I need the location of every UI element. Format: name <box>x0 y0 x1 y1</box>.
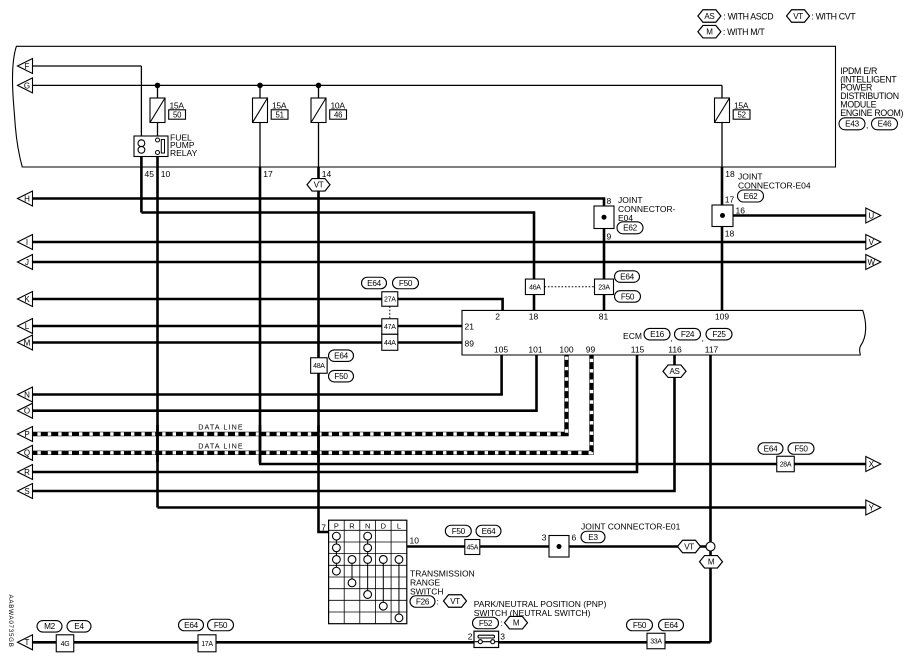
dotted link 46A-23A <box>545 286 595 288</box>
page connector arrow J <box>18 255 33 270</box>
svg-text:VT: VT <box>684 542 694 551</box>
svg-text:17: 17 <box>263 169 273 179</box>
page connector arrow L <box>18 319 33 334</box>
connector F50 above 33A <box>627 619 653 631</box>
svg-text:,: , <box>866 120 868 130</box>
svg-text:AS: AS <box>704 12 714 21</box>
svg-text:G: G <box>24 81 30 90</box>
svg-text:99: 99 <box>586 344 596 354</box>
svg-text:F: F <box>25 62 30 71</box>
svg-text:89: 89 <box>465 339 475 349</box>
svg-text:M: M <box>708 558 715 567</box>
legend marker M : WITH M/T <box>698 25 721 38</box>
wire pin10 down to Y corner <box>156 155 159 508</box>
svg-text:F50: F50 <box>214 621 228 630</box>
svg-text:15A: 15A <box>272 101 287 111</box>
junction on G bus at fuse 50 <box>155 83 161 89</box>
svg-text:F24: F24 <box>681 330 695 339</box>
svg-text:E64: E64 <box>620 273 634 282</box>
svg-text:E64: E64 <box>184 621 198 630</box>
svg-text:L: L <box>25 322 30 331</box>
svg-text:M2: M2 <box>44 622 56 631</box>
wire X run <box>259 463 866 466</box>
svg-text:18: 18 <box>529 312 539 322</box>
svg-text:VT: VT <box>793 12 803 21</box>
svg-text:RELAY: RELAY <box>170 148 198 158</box>
connector E64 above 28A <box>758 443 783 455</box>
connector F26 <box>410 596 435 608</box>
connector M2 <box>37 621 62 633</box>
transmission range switch grid <box>329 520 407 624</box>
joint connector E04 right box <box>712 205 733 227</box>
marker M below junction <box>700 556 723 569</box>
svg-text:45A: 45A <box>467 545 479 552</box>
ECM box (torn right edge) <box>462 310 866 355</box>
wire fuse 50 to relay contact <box>157 123 159 139</box>
svg-text:28A: 28A <box>780 462 792 469</box>
joint connector E04 right junction dot <box>720 213 725 218</box>
svg-text:116: 116 <box>668 344 682 354</box>
wire pin14 repaint over data lines <box>317 425 320 462</box>
splice 44A <box>382 334 398 350</box>
wire J to W run <box>33 261 866 264</box>
svg-text:F26: F26 <box>416 597 430 606</box>
wire U from joint connector pin 16 <box>733 214 866 217</box>
svg-text:E46: E46 <box>878 120 892 129</box>
connector F50 above 27A <box>393 277 419 289</box>
svg-text:E43: E43 <box>845 120 859 129</box>
wire pin14 down to range switch <box>319 167 329 532</box>
fuse 15A 50 <box>150 98 165 123</box>
connector E16 <box>644 328 670 340</box>
svg-text:47A: 47A <box>384 324 396 331</box>
splice 17A <box>198 635 216 652</box>
relay contact <box>156 138 160 142</box>
wire fuse 46 feed <box>318 85 320 98</box>
connector F50 below 23A <box>615 291 641 303</box>
connector F52 <box>473 617 499 629</box>
svg-text:: WITH ASCD: : WITH ASCD <box>723 11 773 21</box>
svg-text:ENGINE ROOM): ENGINE ROOM) <box>840 108 903 118</box>
svg-text::: : <box>437 597 439 607</box>
svg-text:R: R <box>24 468 30 477</box>
wire F horizontal <box>33 65 141 67</box>
svg-text:E62: E62 <box>744 192 758 201</box>
page connector arrow O <box>18 403 33 418</box>
svg-text:2: 2 <box>468 631 473 641</box>
marker VT for F26 <box>444 595 467 608</box>
svg-text:P: P <box>334 521 339 530</box>
svg-text:JOINT CONNECTOR-E01: JOINT CONNECTOR-E01 <box>581 522 681 532</box>
wire pin17 repaint over data lines <box>259 425 262 462</box>
wire fuse 46 to IPDM edge <box>318 123 320 168</box>
wire H run <box>33 199 604 311</box>
PNP switch contacts <box>474 641 499 643</box>
svg-text:VT: VT <box>314 181 324 190</box>
wire fuse 52 to IPDM edge <box>721 123 723 168</box>
wire I to V run <box>33 241 866 244</box>
connector E64 above 45A <box>476 525 501 537</box>
svg-text:E16: E16 <box>650 330 664 339</box>
svg-text:F25: F25 <box>712 330 726 339</box>
svg-text:117: 117 <box>705 344 719 354</box>
svg-text:W: W <box>868 258 876 267</box>
svg-text:17: 17 <box>725 195 735 205</box>
splice 27A <box>382 292 398 307</box>
wire fuse 51 feed <box>259 85 261 98</box>
svg-text:18: 18 <box>725 169 735 179</box>
svg-text:101: 101 <box>528 344 542 354</box>
grid contact circles <box>333 532 341 540</box>
page connector arrow H <box>18 191 33 206</box>
relay coil <box>138 140 145 147</box>
joint connector E01 junction dot <box>557 544 562 549</box>
wire P data line tube <box>33 355 567 434</box>
wire ECM pin 117 down to bottom <box>709 355 712 642</box>
svg-text:P: P <box>24 430 29 439</box>
page connector arrow R <box>18 465 33 480</box>
wire pin18 fuse52 down to ECM 109 <box>721 167 724 310</box>
data line Q white dashes <box>33 355 592 453</box>
wire fuse 51 to IPDM edge <box>259 123 261 168</box>
svg-text:V: V <box>869 238 875 247</box>
junction on G bus at fuse 51 <box>257 83 263 89</box>
splice 48A <box>311 358 328 374</box>
svg-text:6: 6 <box>572 533 577 543</box>
data line P white dashes <box>33 355 567 434</box>
connector F50 above 45A <box>445 525 471 537</box>
svg-text:10: 10 <box>161 169 171 179</box>
svg-text::: : <box>501 618 503 628</box>
PNP switch bar <box>478 635 495 638</box>
wire pin45 down from relay <box>140 155 143 213</box>
svg-text:E3: E3 <box>588 533 598 542</box>
svg-text:F50: F50 <box>794 444 808 453</box>
page connector arrow K <box>18 292 33 307</box>
connector E64 right of 23A <box>615 271 640 283</box>
wire pin45 run to joint 46A drop <box>141 213 534 311</box>
page connector arrow I <box>18 235 33 250</box>
svg-text:14: 14 <box>322 169 332 179</box>
svg-text:D: D <box>381 521 387 530</box>
svg-text:23A: 23A <box>598 284 610 291</box>
connector E62 right <box>738 190 764 202</box>
svg-text:3: 3 <box>542 533 547 543</box>
wire F drop to relay coil <box>140 66 142 136</box>
connector F25 <box>706 328 732 340</box>
legend marker VT : WITH CVT <box>787 10 810 23</box>
svg-text:S: S <box>24 487 29 496</box>
svg-text:50: 50 <box>173 111 182 120</box>
wire S run to ECM pin 116 <box>33 355 675 491</box>
page connector arrow V <box>866 235 881 250</box>
svg-text:F50: F50 <box>633 621 647 630</box>
svg-text:E4: E4 <box>74 622 84 631</box>
svg-text:F50: F50 <box>621 292 635 301</box>
wire G bus horizontal <box>33 84 722 86</box>
svg-text:E62: E62 <box>623 224 637 233</box>
fuse 10A 46 <box>311 98 326 123</box>
svg-text:M: M <box>24 338 31 347</box>
svg-text:K: K <box>24 295 30 304</box>
svg-text:52: 52 <box>738 111 746 120</box>
svg-text:2: 2 <box>495 312 500 322</box>
svg-text:M: M <box>706 28 713 37</box>
page connector arrow U <box>866 208 881 223</box>
svg-text:SWITCH (NEUTRAL SWITCH): SWITCH (NEUTRAL SWITCH) <box>474 608 591 618</box>
svg-text:8: 8 <box>607 196 612 206</box>
wire pin10 repaint over data lines <box>156 425 159 462</box>
svg-text:N: N <box>24 390 30 399</box>
svg-text:10: 10 <box>410 536 420 546</box>
wire G corner down to fuse 52 <box>721 85 723 98</box>
svg-text:E64: E64 <box>764 444 778 453</box>
svg-text:18: 18 <box>725 229 735 239</box>
page connector arrow S <box>18 484 33 499</box>
connector E3 <box>581 531 605 543</box>
svg-text:46: 46 <box>334 111 342 120</box>
svg-text:33A: 33A <box>650 639 662 646</box>
svg-text:16: 16 <box>736 206 746 216</box>
marker VT before junction <box>678 540 701 553</box>
wire R run to ECM pin 115 <box>33 355 637 472</box>
svg-text:,: , <box>702 333 704 343</box>
splice 23A <box>595 279 614 295</box>
wire range switch pin 10 to joint connector E01 <box>407 545 711 548</box>
page connector arrow P <box>18 427 33 442</box>
splice 4G <box>56 635 74 652</box>
svg-text:VT: VT <box>450 597 460 606</box>
svg-text:: WITH M/T: : WITH M/T <box>723 27 765 37</box>
page connector arrow Y <box>866 500 881 515</box>
svg-text:10A: 10A <box>331 101 346 111</box>
svg-text:J: J <box>25 258 29 267</box>
connector F24 <box>675 328 701 340</box>
wire bottom T run <box>33 641 711 644</box>
marker M for F52 <box>505 616 528 629</box>
joint connector E01 box <box>549 536 569 558</box>
wire Y run <box>158 506 867 509</box>
svg-text:: WITH CVT: : WITH CVT <box>811 11 856 21</box>
svg-text:E64: E64 <box>482 527 496 536</box>
page connector arrow M <box>18 335 33 350</box>
svg-text:45: 45 <box>145 169 155 179</box>
page connector arrow N <box>18 387 33 402</box>
svg-text:21: 21 <box>465 321 475 331</box>
fuel pump relay box <box>134 136 168 157</box>
svg-text:T: T <box>25 638 30 647</box>
svg-text:E64: E64 <box>664 621 678 630</box>
junction node circle <box>706 542 715 551</box>
svg-text:105: 105 <box>494 344 508 354</box>
connector E64 above 17A <box>179 619 204 631</box>
svg-text:7: 7 <box>321 523 326 533</box>
splice 46A <box>525 279 544 295</box>
svg-text:R: R <box>349 521 355 530</box>
svg-text:SWITCH: SWITCH <box>410 587 444 597</box>
splice 47A <box>382 319 398 335</box>
connector E64 right of 48A <box>329 350 354 362</box>
svg-text:L: L <box>397 521 401 530</box>
fuse 15A 51 <box>253 98 268 123</box>
svg-text:F50: F50 <box>334 372 348 381</box>
grid contact link lines <box>335 536 337 571</box>
svg-text:46A: 46A <box>529 284 541 291</box>
wire N run to ECM pin 105 <box>33 355 502 395</box>
connector F50 above 28A <box>788 443 814 455</box>
page connector arrow X <box>866 457 881 472</box>
dotted link 27A-47A <box>389 306 391 319</box>
svg-text:4G: 4G <box>61 641 70 648</box>
svg-text:DATA LINE: DATA LINE <box>198 423 244 432</box>
joint connector E04 left box <box>594 206 614 229</box>
svg-text:3: 3 <box>500 631 505 641</box>
svg-text:115: 115 <box>631 344 645 354</box>
svg-text:15A: 15A <box>734 101 749 111</box>
svg-text:U: U <box>868 211 874 220</box>
svg-text:O: O <box>24 407 30 416</box>
legend marker AS : WITH ASCD <box>698 10 721 23</box>
svg-text:51: 51 <box>276 111 284 120</box>
svg-text:100: 100 <box>559 344 573 354</box>
connector E4 <box>67 621 91 633</box>
page connector arrow W <box>866 255 881 270</box>
svg-text:F52: F52 <box>479 619 493 628</box>
connector E46 <box>872 118 898 130</box>
svg-text:9: 9 <box>607 232 612 242</box>
svg-text:DATA LINE: DATA LINE <box>198 441 244 450</box>
svg-text:H: H <box>24 194 30 203</box>
connector E64 above 27A <box>362 277 387 289</box>
svg-text:M: M <box>513 619 520 628</box>
svg-text:AS: AS <box>669 367 679 376</box>
page connector arrow G <box>18 78 33 93</box>
svg-text:ECM: ECM <box>623 331 642 341</box>
svg-text:N: N <box>365 521 370 530</box>
svg-text:17A: 17A <box>201 641 213 648</box>
svg-text:E64: E64 <box>367 279 381 288</box>
svg-text:48A: 48A <box>313 363 325 370</box>
wire L run to ECM pin 21 <box>33 325 462 328</box>
svg-text:15A: 15A <box>170 101 185 111</box>
svg-text:,: , <box>671 333 673 343</box>
wire fuse 50 feed <box>157 85 159 98</box>
wire M run to ECM pin 89 <box>33 341 462 344</box>
svg-text:AABWA0735GB: AABWA0735GB <box>7 595 14 648</box>
page connector arrow F <box>18 59 33 74</box>
svg-text:Y: Y <box>869 503 875 512</box>
svg-text:X: X <box>869 460 875 469</box>
fuse 15A 52 <box>715 98 730 123</box>
splice 28A <box>777 456 795 472</box>
svg-text:81: 81 <box>599 312 609 322</box>
connector F50 above 17A <box>208 619 234 631</box>
wire Q data line tube <box>33 355 592 453</box>
svg-text:CONNECTOR-E04: CONNECTOR-E04 <box>738 181 811 191</box>
svg-text:E64: E64 <box>334 352 348 361</box>
connector F50 right of 48A <box>329 370 354 382</box>
svg-text:109: 109 <box>715 312 729 322</box>
svg-text:44A: 44A <box>384 340 396 347</box>
splice 33A <box>647 633 665 649</box>
marker VT below pin 14 <box>307 179 330 192</box>
svg-text:Q: Q <box>24 449 30 458</box>
splice 45A <box>465 540 480 555</box>
wire O run to ECM pin 101 <box>33 355 537 411</box>
page connector arrow T <box>18 635 33 650</box>
joint connector E04 left junction dot <box>602 215 607 220</box>
svg-text:27A: 27A <box>384 297 396 304</box>
PNP switch box <box>474 631 499 647</box>
svg-text:F50: F50 <box>399 279 413 288</box>
wire K run to ECM pin 2 <box>33 299 503 310</box>
connector E64 above 33A <box>659 619 684 631</box>
connector E62 left <box>617 222 643 234</box>
IPDM E/R box (torn left edge) <box>12 46 835 167</box>
marker AS below pin 116 <box>663 365 686 378</box>
wire pin17 down to X corner <box>259 167 262 464</box>
svg-text:I: I <box>26 238 28 247</box>
svg-text:F50: F50 <box>452 527 466 536</box>
page connector arrow Q <box>18 445 33 460</box>
junction on G bus at fuse 46 <box>316 83 322 89</box>
connector E43 <box>839 118 865 130</box>
